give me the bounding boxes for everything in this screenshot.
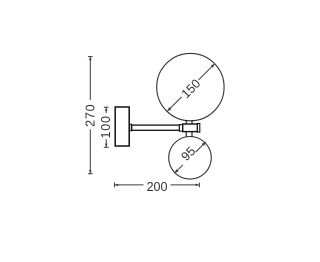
dimension line 200 (arm length, horizontal bottom) <box>115 183 200 188</box>
horizontal arm <box>132 125 180 130</box>
dimension line 270 (overall height, vertical left) <box>88 57 93 174</box>
dimension line 95 (bottom ball diameter, diagonal) <box>175 142 206 173</box>
bottom neck (connects hub to 95 ball) <box>186 132 192 137</box>
socket hub body <box>183 124 198 132</box>
svg-text:200: 200 <box>147 180 168 194</box>
dimension line 100 (wall plate height) <box>104 107 109 147</box>
glass ball shade 95mm (bottom sphere) <box>169 137 212 180</box>
arm root flange <box>130 124 132 131</box>
socket hub right bar <box>197 124 199 133</box>
socket hub left cap <box>179 125 182 132</box>
svg-text:100: 100 <box>99 115 113 138</box>
dimension line 150 (top ball diameter, diagonal) <box>167 64 215 111</box>
top neck (connects hub to 150 ball) <box>186 120 192 124</box>
glass ball shade 150mm (top sphere) <box>157 53 224 120</box>
wall mount plate <box>115 107 129 146</box>
svg-text:270: 270 <box>84 104 98 127</box>
